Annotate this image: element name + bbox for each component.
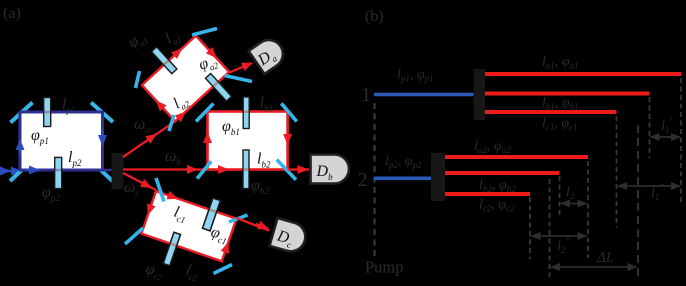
- svg-text:φc2: φc2: [144, 260, 165, 282]
- bar b2: [445, 171, 560, 175]
- bar b1: [485, 92, 650, 96]
- loop A arrow right edge: [208, 49, 216, 58]
- svg-text:2: 2: [358, 169, 368, 191]
- detector Db: [311, 155, 350, 184]
- pump dashed timeline: [373, 103, 375, 258]
- mirror B TR: [281, 103, 296, 121]
- mirror pump TL: [11, 103, 33, 123]
- mirror B BL: [197, 161, 211, 178]
- mirror B TL: [196, 104, 214, 122]
- beam omega_a arrow: [146, 134, 156, 141]
- dimension arrow deltaL: [551, 266, 637, 268]
- pump input wire: [0, 170, 10, 172]
- svg-text:ωc: ωc: [124, 179, 139, 198]
- crystal 2: [431, 153, 445, 201]
- pump input arrow 2: [10, 170, 21, 172]
- mirror pump BL: [10, 161, 32, 181]
- dimension arrow l1doubleprime: [618, 185, 680, 187]
- beam omega_b wire: [123, 168, 208, 170]
- svg-text:l2′: l2′: [566, 181, 577, 201]
- phase plate A2: [205, 74, 231, 102]
- svg-text:φa1: φa1: [125, 28, 150, 53]
- mirror A left: [136, 71, 140, 88]
- svg-text:ΔL: ΔL: [596, 250, 614, 266]
- svg-text:(a): (a): [3, 5, 21, 22]
- dashed marker b1 end: [649, 97, 651, 158]
- mirror pump TR: [91, 103, 113, 123]
- beam omega_c wire: [123, 173, 156, 190]
- dashed marker c2 end: [529, 197, 531, 259]
- beam omega_a wire: [123, 121, 175, 157]
- beam to Da wire: [230, 63, 253, 73]
- svg-text:lp1: lp1: [62, 96, 75, 115]
- loop A (rotated interferometer a): [130, 22, 243, 136]
- phase plate C2: [163, 232, 180, 265]
- loop C arrow top edge: [167, 195, 177, 199]
- dashed marker a1 end: [680, 78, 682, 205]
- beam to Dc arrow: [256, 224, 268, 229]
- mirror C BR: [214, 265, 233, 274]
- svg-text:1: 1: [361, 84, 371, 106]
- svg-text:lc2, φc2: lc2, φc2: [479, 198, 515, 214]
- wire pump loop to crystal: [103, 169, 113, 172]
- crystal 1: [474, 69, 486, 120]
- loop B rectangle: [208, 112, 288, 170]
- dashed marker c1 end: [616, 116, 618, 228]
- detector Da: [249, 35, 289, 75]
- svg-text:l1″: l1″: [651, 182, 664, 202]
- beam to Db arrow: [297, 168, 308, 170]
- pump loop rectangle: [20, 112, 103, 170]
- beam omega_c arrow: [142, 183, 151, 188]
- bar a1: [485, 72, 681, 76]
- loop B arrow right edge down: [286, 128, 288, 144]
- loop A rectangle: [142, 36, 229, 122]
- crystal: [112, 153, 124, 189]
- svg-text:lb2, φb2: lb2, φb2: [479, 178, 516, 194]
- svg-text:lb1: lb1: [260, 95, 273, 114]
- phase plate A1: [151, 47, 176, 74]
- svg-text:l2″: l2″: [557, 235, 570, 255]
- dashed marker deltaL left: [549, 179, 551, 277]
- phase plate P1: [44, 98, 51, 127]
- mirror B BR: [277, 160, 296, 180]
- svg-text:lc2: lc2: [183, 262, 201, 284]
- mirror A top: [192, 29, 217, 36]
- svg-text:l1′: l1′: [661, 115, 672, 135]
- detector Dc: [270, 218, 309, 255]
- phase plate B2: [243, 150, 249, 189]
- dimension arrow l2doubleprime: [532, 235, 587, 237]
- beamsplitter A exit: [225, 76, 253, 82]
- mirror C TL: [156, 178, 164, 202]
- svg-text:la2, φa2: la2, φa2: [474, 139, 511, 155]
- svg-text:φb2: φb2: [251, 177, 269, 196]
- loop A arrow top edge: [173, 49, 181, 56]
- svg-text:Pump: Pump: [365, 258, 404, 277]
- dimension arrow l1prime: [651, 136, 681, 138]
- loop A arrow left edge: [156, 101, 164, 110]
- loop A arrow bottom edge: [177, 112, 185, 119]
- pump loop arrow left edge up: [19, 140, 21, 153]
- svg-text:la1: la1: [162, 26, 183, 49]
- svg-text:lp1, φp1: lp1, φp1: [397, 68, 434, 84]
- svg-text:lp2, φp2: lp2, φp2: [385, 154, 422, 170]
- phase plate C1: [202, 198, 220, 231]
- svg-text:lc1, φc1: lc1, φc1: [542, 116, 578, 132]
- beam omega_b arrow: [186, 168, 197, 170]
- mirror A bottom: [169, 115, 174, 131]
- svg-text:ωb: ωb: [165, 148, 181, 167]
- phase plate P2: [55, 157, 62, 188]
- loop C arrow right edge: [225, 243, 229, 253]
- pump pulse 1 bar: [374, 93, 475, 97]
- phase plate B1: [243, 97, 249, 129]
- svg-text:ωa: ωa: [134, 116, 150, 135]
- bar c2: [445, 192, 530, 196]
- loop C rectangle: [141, 191, 236, 261]
- svg-text:(b): (b): [365, 8, 384, 25]
- beamsplitter C TR: [229, 215, 248, 222]
- loop B arrow bottom edge: [218, 168, 228, 170]
- svg-text:la1, φa1: la1, φa1: [542, 55, 579, 71]
- beam to Dc wire: [237, 218, 270, 231]
- mirror pump BR: [91, 161, 113, 182]
- pump pulse 2 bar: [374, 177, 432, 181]
- loop B arrow left edge up: [206, 133, 208, 147]
- dashed marker deltaL right: [637, 125, 639, 277]
- svg-text:lb1, φb1: lb1, φb1: [542, 96, 579, 112]
- bar a2: [445, 155, 588, 159]
- pump loop arrow bottom edge right: [26, 169, 39, 171]
- mirror C BL: [125, 228, 143, 244]
- dimension arrow l2prime: [561, 203, 587, 205]
- loop C (rotated interferometer c): [135, 180, 241, 282]
- pump loop arrow right edge down: [101, 130, 103, 145]
- loop C arrow left edge: [148, 203, 152, 214]
- beam to Db wire: [288, 168, 309, 170]
- dashed marker b2 end: [559, 176, 561, 217]
- bar c1: [485, 110, 617, 114]
- dashed marker a2 end: [587, 161, 589, 258]
